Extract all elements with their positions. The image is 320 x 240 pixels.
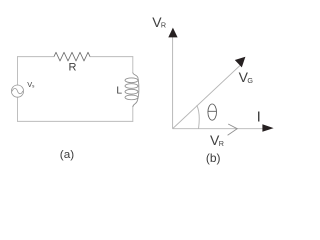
- open arrowhead VR phasor: [228, 124, 238, 135]
- wire left-top vertical: [17, 57, 19, 85]
- svg-text:VG: VG: [239, 69, 254, 85]
- inductor L: [125, 73, 139, 108]
- arrowhead VG phasor: [235, 57, 246, 68]
- svg-text:VR: VR: [210, 132, 224, 148]
- resistor R: [54, 52, 90, 61]
- AC source Vs: [11, 85, 23, 97]
- wire right-top vertical: [132, 57, 134, 73]
- wire left-bottom vertical: [17, 97, 19, 121]
- svg-text:(a): (a): [60, 149, 74, 161]
- theta glyph: [208, 104, 217, 120]
- wire bottom horizontal: [18, 120, 133, 122]
- svg-text:I: I: [257, 108, 261, 125]
- axis I horizontal line: [173, 128, 263, 130]
- phasor VG diagonal line: [173, 65, 241, 128]
- axis V vertical line: [172, 36, 174, 129]
- wire top-left horizontal: [18, 56, 55, 58]
- arrowhead vertical axis: [168, 28, 177, 38]
- arrowhead I axis: [262, 124, 273, 132]
- theta arc: [197, 105, 199, 129]
- phasor axes: [173, 36, 263, 129]
- svg-text:R: R: [69, 62, 77, 74]
- svg-text:VR: VR: [152, 14, 166, 30]
- svg-text:(b): (b): [206, 151, 221, 165]
- svg-text:L: L: [116, 86, 122, 97]
- wire top-right horizontal: [90, 56, 133, 58]
- wire right-bottom vertical: [132, 107, 134, 121]
- svg-text:Vs: Vs: [27, 80, 35, 89]
